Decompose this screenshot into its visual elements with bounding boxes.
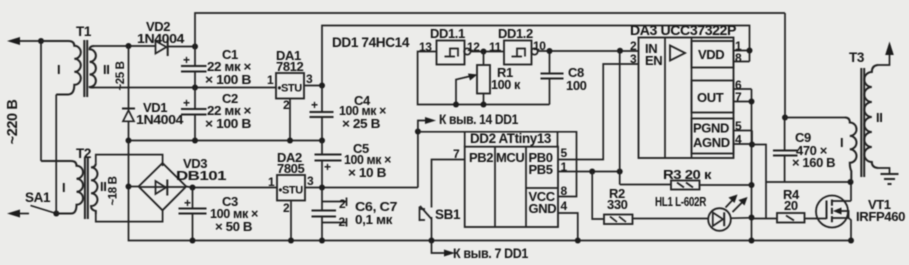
svg-text:2: 2 (339, 197, 346, 211)
bridge rectifier VD3 DB101 (139, 163, 187, 210)
wire DD2 pin4 GND (558, 213, 578, 241)
svg-text:PB5: PB5 (529, 162, 553, 177)
svg-text:× 100 В: × 100 В (205, 116, 251, 131)
node VD1 top junction (126, 43, 132, 49)
svg-text:7805: 7805 (277, 161, 304, 176)
wire T1 secondary bottom to C1C2 node (94, 87, 276, 89)
capacitor C6 C7 (321, 188, 323, 241)
wire annotation to pin 7 DD1 (432, 241, 447, 254)
voltage regulator DA2 7805 (277, 175, 305, 201)
svg-text:11: 11 (489, 40, 502, 54)
wire T2 secondary top to bridge (96, 155, 163, 166)
button SB1 (420, 206, 432, 219)
wire oscillator input loop (418, 52, 550, 105)
svg-text:2: 2 (630, 39, 637, 53)
svg-text:PB2: PB2 (469, 150, 493, 165)
wire SA1 input with arrow (14, 213, 29, 215)
svg-text:T3: T3 (849, 50, 865, 65)
svg-text:5: 5 (561, 146, 568, 160)
svg-text:II: II (103, 62, 109, 77)
wire DD1.2 out to DA3 IN (538, 50, 639, 52)
wire T3 secondary output arrow (878, 51, 890, 65)
wire DA3 OUT pins 6 7 (734, 89, 752, 102)
svg-text:× 160 В: × 160 В (792, 155, 835, 170)
capacitor C4 (321, 86, 323, 141)
svg-text:II: II (876, 110, 882, 125)
svg-text:SB1: SB1 (435, 207, 461, 222)
wire gnd stub right (752, 145, 767, 219)
svg-text:HL1 L-602R: HL1 L-602R (655, 194, 707, 209)
svg-text:VDD: VDD (698, 47, 724, 62)
svg-text:AGND: AGND (693, 135, 730, 150)
wire VD2 to C1 node (169, 46, 196, 48)
node junction 220V top (38, 38, 44, 44)
capacitor C2 (181, 108, 207, 110)
diode VD2 1N4004 (156, 41, 167, 54)
wire DD2 pin7 to SB1 (432, 160, 465, 208)
svg-text:DA3 UCC37322P: DA3 UCC37322P (630, 23, 736, 38)
wire DA3 PGND AGND pins 5 4 (734, 131, 753, 145)
svg-text:DD1.2: DD1.2 (498, 26, 533, 41)
voltage regulator DA1 7812 (276, 73, 304, 99)
wire DD2 pin5 PB0 to DA3 EN (558, 64, 639, 160)
svg-text:+: + (184, 196, 191, 210)
svg-text:+: + (311, 98, 318, 112)
wire 220V top line with arrow (14, 40, 45, 42)
svg-text:DD1.1: DD1.1 (430, 26, 465, 41)
svg-text:I: I (57, 62, 60, 77)
svg-text:~18 В: ~18 В (108, 176, 120, 205)
wire +5V riser (417, 132, 419, 188)
inverter DD1.2 (504, 41, 532, 65)
svg-text:DD2 ATtiny13: DD2 ATtiny13 (470, 131, 552, 146)
svg-text:SA1: SA1 (25, 190, 51, 205)
wire DD1.1 out to DD1.2 in (471, 51, 505, 53)
capacitor C3 (192, 188, 194, 241)
svg-text:× 25 В: × 25 В (342, 116, 380, 131)
svg-text:20: 20 (784, 198, 798, 213)
svg-text:8: 8 (561, 184, 568, 198)
wire DA3 VDD pins 1 8 (734, 51, 750, 62)
svg-text:~25 В: ~25 В (115, 61, 127, 90)
wire top +U rail (195, 13, 785, 47)
svg-text:3: 3 (306, 72, 313, 86)
transistor VT1 IRFP460 (805, 218, 827, 220)
wire +5V rail over DD2 (418, 132, 577, 197)
svg-text:8: 8 (735, 51, 742, 65)
svg-text:PGND: PGND (693, 121, 729, 136)
wire T1 secondary top (94, 45, 156, 47)
wire DA1 output to +12 node (304, 85, 322, 87)
svg-text:I: I (840, 135, 843, 150)
resistor R1 100k trimmer (483, 52, 485, 105)
svg-text:DB101: DB101 (176, 168, 226, 183)
svg-text:0,1 мк: 0,1 мк (355, 212, 393, 227)
svg-text:2: 2 (283, 98, 290, 112)
capacitor C9 (784, 118, 786, 183)
svg-text:+: + (183, 53, 190, 67)
wire bridge plus to DA2 input (186, 187, 277, 188)
svg-text:4: 4 (561, 199, 568, 213)
svg-text:× 100 В: × 100 В (205, 72, 251, 87)
wire bridge minus (129, 186, 141, 188)
svg-text:13: 13 (419, 40, 432, 54)
svg-text:× 10 В: × 10 В (348, 165, 386, 180)
svg-text:1N4004: 1N4004 (136, 112, 184, 127)
svg-text:× 50 В: × 50 В (215, 219, 252, 234)
svg-text:1: 1 (267, 73, 274, 87)
wire HL1 to OUT line (731, 217, 752, 219)
wire +12V riser and rail to DA3 (322, 26, 750, 86)
svg-text:IRFP460: IRFP460 (856, 209, 905, 224)
svg-text:330: 330 (607, 197, 628, 212)
svg-text:DD1 74HC14: DD1 74HC14 (332, 35, 410, 50)
svg-text:II: II (100, 179, 106, 194)
wire 220V drop to T2 primary (40, 41, 42, 161)
ground (881, 173, 899, 175)
svg-text:К выв. 14 DD1: К выв. 14 DD1 (439, 112, 519, 127)
svg-text:3: 3 (307, 174, 314, 188)
wire ground rail upper (129, 140, 323, 142)
svg-text:T1: T1 (76, 24, 92, 39)
svg-text:К выв. 7 DD1: К выв. 7 DD1 (453, 246, 529, 261)
wire DA2 output +5V (305, 187, 418, 189)
svg-text:2: 2 (339, 215, 346, 229)
wire C9 branch (766, 181, 851, 183)
svg-text:R3 20 к: R3 20 к (663, 167, 712, 182)
svg-text:7812: 7812 (276, 59, 303, 74)
node SA1 junction (53, 211, 59, 217)
wire DA1 gnd pin2 (289, 99, 291, 141)
svg-text:~220 В: ~220 В (5, 100, 21, 145)
svg-text:100 к: 100 к (491, 77, 521, 92)
capacitor C1 (181, 65, 207, 67)
wire DD2 pin1 PB5 to DA3 IN (558, 171, 620, 173)
svg-text:1: 1 (268, 175, 275, 189)
svg-text:EN: EN (645, 53, 662, 68)
svg-text:100: 100 (566, 78, 587, 93)
resistor R2 330 (592, 172, 604, 220)
wire DA2 gnd pin2 (290, 201, 292, 241)
svg-text:•STU: •STU (278, 83, 303, 95)
capacitor C5 (321, 141, 323, 188)
svg-text:•STU: •STU (279, 185, 304, 197)
svg-text:2: 2 (283, 201, 290, 215)
svg-text:MCU: MCU (496, 150, 524, 165)
resistor R3 20k (620, 184, 752, 187)
wire T2 secondary bottom to bridge (96, 209, 163, 222)
svg-text:+: + (324, 160, 331, 174)
inverter DD1.1 (437, 41, 465, 65)
resistor R4 20 (752, 218, 778, 220)
svg-text:+: + (183, 96, 190, 110)
wire +U drop to T3 (784, 13, 786, 117)
diode VD1 1N4004 (128, 46, 130, 109)
svg-text:1N4004: 1N4004 (137, 31, 185, 46)
svg-text:GND: GND (529, 201, 557, 216)
svg-text:OUT: OUT (697, 90, 724, 105)
LED HL1 L-602R (708, 208, 731, 231)
svg-text:I: I (62, 180, 65, 195)
capacitor C8 (549, 51, 551, 105)
wire R2 to HL1 (633, 218, 709, 220)
svg-text:3: 3 (630, 52, 637, 66)
wire T3 secondary to ground (878, 168, 890, 174)
switch SA1 (31, 206, 57, 214)
wire DD2 label box sides (465, 132, 558, 147)
wire ground drop to bridge minus and bottom rail (129, 141, 852, 241)
wire annotation to pin 14 DD1 (418, 121, 427, 132)
